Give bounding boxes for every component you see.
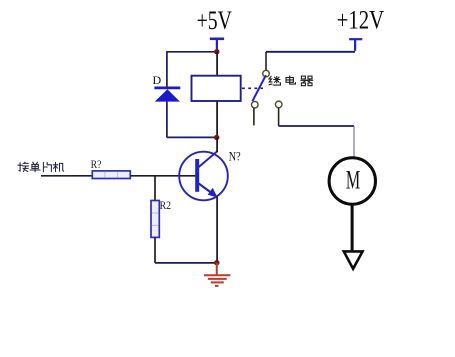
transistor emitter stroke bbox=[198, 183, 213, 194]
power symbol +12V (bar) bbox=[349, 39, 362, 51]
继 bbox=[269, 76, 280, 85]
器 bbox=[301, 76, 313, 86]
svg-text:M: M bbox=[346, 166, 360, 195]
wire: junction to collector bbox=[216, 137, 218, 152]
svg-text:D: D bbox=[153, 73, 162, 87]
transistor base bar bbox=[195, 159, 199, 192]
diode D triangle bbox=[155, 89, 180, 101]
svg-text:R?: R? bbox=[91, 158, 102, 171]
电 bbox=[286, 76, 295, 84]
relay coil K (rectangle) bbox=[192, 76, 241, 101]
relay common contact circle bbox=[263, 70, 270, 77]
wire: down to motor bbox=[353, 126, 355, 158]
wire: +5V junction down to relay coil bbox=[216, 52, 218, 76]
dashed link coil to relay blade bbox=[242, 87, 263, 89]
wire: R2 bottom down bbox=[154, 237, 156, 263]
wire: relay coil bottom to junction bbox=[216, 101, 218, 137]
wire: NO contact down bbox=[278, 108, 280, 126]
wire: R2 to ground junction bbox=[155, 262, 217, 264]
svg-text:+5V: +5V bbox=[197, 5, 233, 34]
单 bbox=[30, 162, 40, 172]
wire: diode branch vertical lower bbox=[166, 102, 168, 138]
wire: emitter down to ground junction bbox=[216, 197, 218, 264]
wire: diode bottom to collector junction bbox=[167, 136, 217, 138]
片 bbox=[43, 162, 51, 171]
node ground junction dot bbox=[214, 260, 219, 265]
机 bbox=[53, 162, 64, 171]
wire: R? to transistor base bbox=[130, 175, 195, 177]
wire: MCU input to R? bbox=[41, 175, 92, 177]
transistor N? circle bbox=[179, 152, 228, 201]
arrow head (down) bbox=[344, 251, 363, 268]
wire: +5V junction to diode branch (horizontal) bbox=[166, 51, 217, 53]
wire: NO contact to motor column bbox=[279, 125, 354, 127]
transistor collector stroke bbox=[198, 151, 218, 168]
接 bbox=[18, 162, 29, 171]
transistor emitter arrow head bbox=[208, 188, 218, 198]
svg-text:R2: R2 bbox=[160, 199, 171, 212]
svg-text:N?: N? bbox=[229, 149, 241, 163]
relay contact NC circle (left) bbox=[252, 101, 259, 108]
node junction dot (coil/diode/collector) bbox=[214, 135, 219, 140]
resistor R2 (vertical) bbox=[151, 201, 159, 238]
wire: stub below NC contact bbox=[253, 108, 255, 125]
wire: common contact up bbox=[265, 52, 267, 70]
label 接单片机 (to MCU) bbox=[18, 162, 64, 172]
resistor R? (horizontal) bbox=[92, 171, 130, 179]
wire: top rail to +12V bbox=[266, 51, 355, 53]
relay blade (switch arm) bbox=[252, 75, 266, 101]
diode D (flyback) cathode bar bbox=[154, 87, 180, 90]
relay contact NO circle (right) bbox=[275, 101, 282, 108]
ground symbol bbox=[204, 263, 230, 286]
node junction dot at +5V bbox=[214, 49, 219, 54]
motor shaft line bbox=[351, 205, 354, 251]
wire: base junction down to R2 bbox=[154, 176, 156, 201]
svg-text:+12V: +12V bbox=[337, 7, 385, 36]
wire: diode branch vertical upper bbox=[166, 52, 168, 87]
relay label 继电器 bbox=[269, 76, 313, 86]
motor M circle bbox=[329, 158, 375, 204]
power symbol +5V (VCC bar) bbox=[210, 39, 224, 52]
